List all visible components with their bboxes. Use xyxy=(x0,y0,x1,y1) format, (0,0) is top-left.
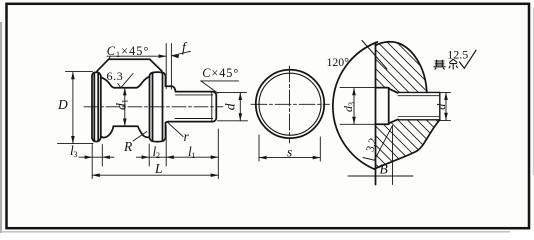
land f and fillet into shaft (top) xyxy=(166,86,176,91)
f arrows xyxy=(159,54,167,58)
svg-text:12.5: 12.5 xyxy=(447,47,468,61)
余 xyxy=(449,59,458,69)
6.3 roughness symbol xyxy=(118,74,133,88)
vertical centerline xyxy=(289,66,291,143)
其余 hand-drawn glyphs xyxy=(433,59,457,69)
L arrows xyxy=(92,173,100,177)
svg-text:3: 3 xyxy=(74,150,78,159)
neck (d1) bottom outline xyxy=(101,126,149,137)
threaded hole xyxy=(398,92,440,119)
C1x45 underline + f dim xyxy=(107,44,191,90)
s dimension xyxy=(259,135,320,161)
d3 arrows xyxy=(352,88,356,96)
r leader xyxy=(167,122,183,137)
l1 right arrow xyxy=(211,155,219,159)
right flange xyxy=(150,72,166,142)
dimension l2 (ext lines + dim line) xyxy=(137,126,167,167)
left big arc xyxy=(333,42,378,169)
recess hole d3 xyxy=(376,88,389,125)
second vertical near B xyxy=(392,126,394,185)
D dimension xyxy=(58,72,94,144)
d dimension right xyxy=(440,92,451,120)
d dimension at shaft end xyxy=(218,92,248,120)
svg-text:1: 1 xyxy=(192,151,196,160)
svg-text:s: s xyxy=(287,145,292,160)
scan edge artifacts xyxy=(0,22,2,233)
d1 dimension line xyxy=(124,88,126,126)
horizontal centerline xyxy=(251,103,330,105)
d3 dimension xyxy=(340,88,376,125)
threaded shaft d xyxy=(168,92,216,122)
hatching top region xyxy=(320,0,475,187)
inner circle (dia s) xyxy=(259,73,321,135)
d1 arrows xyxy=(123,88,127,96)
s arrows xyxy=(259,156,267,160)
l2 arrows xyxy=(142,155,150,159)
dimension l1 (dim line + ext line) xyxy=(166,129,218,179)
trapezoid head (square section, chamfered C1x45) xyxy=(97,59,162,71)
countersink 120 cone xyxy=(389,89,398,93)
svg-text:d: d xyxy=(434,103,448,110)
d shaft arrows xyxy=(239,92,243,100)
svg-text:120°: 120° xyxy=(327,55,350,69)
top-right arc of boss xyxy=(376,42,427,93)
centerline xyxy=(84,106,223,108)
hatching bottom region xyxy=(320,4,475,240)
left disc xyxy=(92,72,101,141)
D arrows xyxy=(71,72,75,80)
face line xyxy=(375,43,377,185)
svg-text:R: R xyxy=(123,139,133,154)
svg-text:6.3: 6.3 xyxy=(107,69,124,83)
dimension l3 (ext lines + dim line) xyxy=(79,145,114,179)
l3 arrows (outside) xyxy=(85,155,93,159)
其 xyxy=(433,60,445,70)
svg-text:2: 2 xyxy=(156,151,160,160)
outer circle (head dia) xyxy=(256,70,324,138)
d right arrows xyxy=(444,92,448,100)
neck (d1) top outline xyxy=(101,77,150,88)
svg-text:d: d xyxy=(223,103,238,110)
dimension L (dim line) xyxy=(92,174,218,176)
svg-text:C×45°: C×45° xyxy=(202,66,239,80)
svg-text:L: L xyxy=(154,161,163,176)
stray construction/hatch diagonal at top xyxy=(362,41,387,70)
thread minor lines xyxy=(176,94,213,96)
12.5 check symbol xyxy=(460,50,477,68)
R leader xyxy=(133,132,147,142)
svg-text:B: B xyxy=(380,162,388,177)
B line xyxy=(348,175,413,177)
chamfer line at shaft end xyxy=(211,92,213,121)
bottom fillet r xyxy=(166,122,169,123)
svg-text:D: D xyxy=(57,97,68,112)
3.2 roughness symbol xyxy=(363,127,392,161)
Cx45 underline + leader xyxy=(201,81,239,93)
svg-text:r: r xyxy=(184,129,190,144)
bottom-right curve xyxy=(374,120,440,169)
svg-text:C1×45°: C1×45° xyxy=(107,44,150,59)
